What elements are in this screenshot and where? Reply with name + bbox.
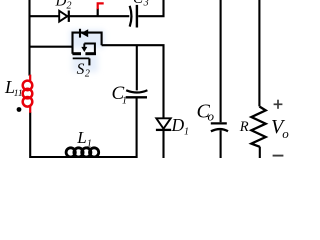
svg-text:R: R [239,119,249,135]
svg-text:D: D [171,115,185,135]
svg-text:1: 1 [87,138,92,149]
svg-text:C: C [133,0,144,7]
svg-text:S: S [77,61,85,78]
svg-text:2: 2 [67,1,72,12]
svg-text:3: 3 [143,0,149,9]
svg-text:1: 1 [184,127,189,138]
svg-text:11: 11 [14,89,23,99]
svg-text:o: o [282,126,289,141]
svg-text:1: 1 [122,96,127,107]
svg-text:o: o [208,109,215,124]
svg-text:2: 2 [85,69,90,80]
svg-text:D: D [55,0,67,10]
svg-text:L: L [76,128,86,147]
